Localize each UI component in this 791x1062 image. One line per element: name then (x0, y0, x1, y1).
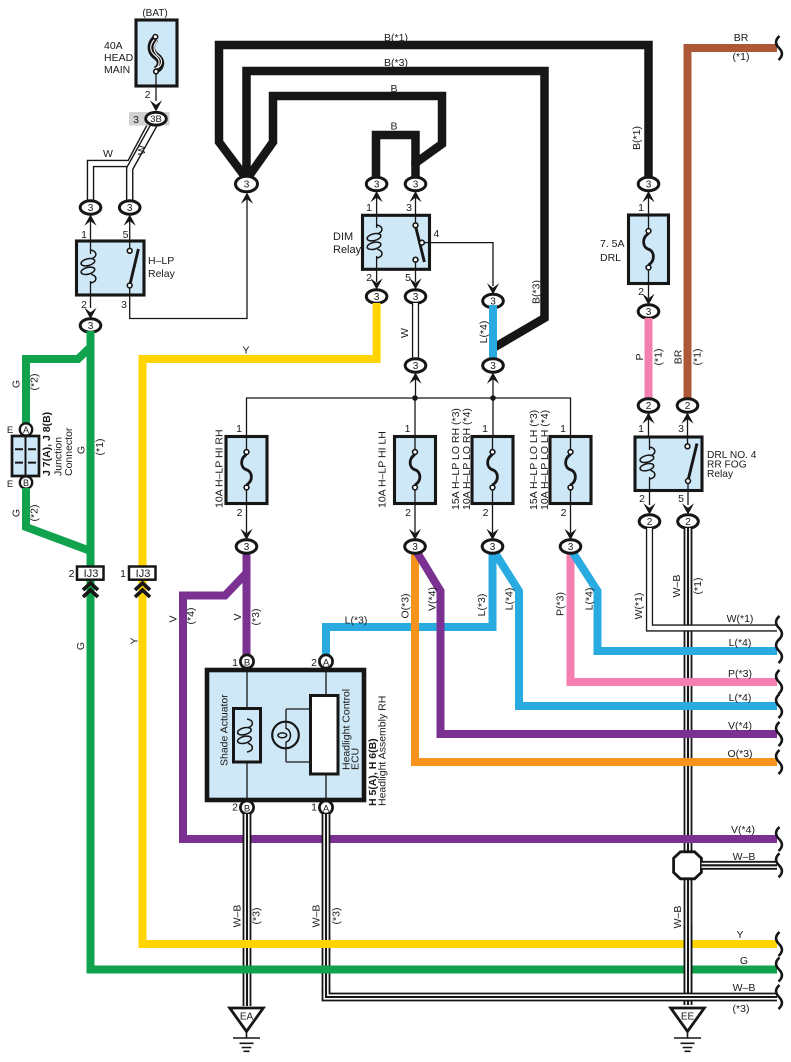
pin 5 label DIM (405, 272, 411, 284)
label (*1) beside BR (692, 349, 704, 366)
wire G(*2) lower branch (26, 488, 91, 551)
break squiggle Y (776, 932, 782, 956)
svg-text:(*3): (*3) (251, 908, 263, 925)
pin 2 label fuse H-LP LO LH (561, 507, 567, 519)
wire L(*4) below DIM pin 4 (489, 305, 497, 359)
pin 2 label H-LP relay (81, 299, 87, 311)
label L(*4) right lower (729, 692, 752, 704)
label P vertical (634, 353, 646, 360)
svg-text:3: 3 (413, 180, 419, 191)
label V(*4) bottom right (731, 824, 755, 836)
svg-text:1: 1 (638, 423, 644, 435)
svg-text:A: A (323, 803, 330, 814)
svg-text:W–B: W–B (311, 905, 323, 928)
svg-text:J 7(A), J 8(B): J 7(A), J 8(B) (41, 412, 53, 476)
label V(*4) right (728, 720, 752, 732)
label B (fourth wire) (390, 121, 397, 133)
svg-text:HEAD: HEAD (104, 52, 134, 64)
arrow below fuse H-LP HI LH (409, 504, 421, 541)
label B(*3) vertical (531, 280, 543, 304)
pin 2 label fuse H-LP HI RH (237, 507, 243, 519)
label L(*4) vertical b (584, 588, 596, 611)
svg-text:B(*3): B(*3) (384, 57, 408, 69)
label (*1) under BR (733, 51, 750, 63)
label Y top (242, 345, 249, 357)
svg-text:2: 2 (405, 507, 411, 519)
fuse 40A HEAD MAIN box (136, 20, 177, 86)
label DRL NO.4 RR FOG Relay (707, 450, 757, 480)
pin 2 label fuse H-LP LO RH (483, 507, 489, 519)
wire W-B vertical patch (684, 925, 693, 1005)
svg-text:1: 1 (638, 202, 644, 214)
svg-text:P: P (634, 353, 646, 360)
label fuse H-LP LO RH (450, 408, 473, 510)
svg-text:7. 5A: 7. 5A (600, 238, 625, 250)
svg-text:L(*4): L(*4) (729, 692, 752, 704)
node 3 below L(*4) wire (483, 359, 504, 398)
label G bottom right (740, 955, 748, 967)
wire B(*1) (219, 45, 649, 179)
arrow below fuse H-LP LO LH (564, 504, 576, 541)
label (*3) beside V (250, 609, 262, 626)
svg-text:E: E (7, 425, 13, 436)
svg-text:V(*4): V(*4) (427, 587, 439, 611)
shade actuator coil box (234, 668, 261, 800)
svg-text:Shade Actuator: Shade Actuator (219, 694, 231, 766)
svg-text:1: 1 (405, 423, 411, 435)
svg-text:3: 3 (646, 180, 652, 191)
svg-text:L(*4): L(*4) (504, 588, 516, 611)
label O(*3) right (727, 748, 752, 760)
label fuse H-LP LO LH (528, 410, 551, 510)
svg-text:40A: 40A (104, 40, 123, 52)
break squiggle W(*1) (776, 616, 782, 640)
svg-text:1: 1 (311, 802, 317, 814)
node 3 below fuse H-LP LO RH (482, 540, 503, 553)
label G main (76, 446, 88, 454)
pin 2 label DRL relay (639, 493, 645, 505)
label W-B octagon right (733, 851, 756, 863)
node 3 connector above H-LP pin 1 (80, 201, 101, 240)
svg-text:L(*3): L(*3) (345, 615, 368, 627)
ground EA (230, 1008, 264, 1051)
svg-text:(*1): (*1) (692, 349, 704, 366)
svg-text:5: 5 (123, 229, 129, 241)
svg-text:W–B: W–B (733, 851, 756, 863)
label W(*1) vertical (633, 593, 645, 620)
wire B(*3) (247, 71, 545, 347)
switch of DIM relay (413, 215, 429, 269)
label V(*4) vertical right (427, 587, 439, 611)
svg-text:2: 2 (638, 286, 644, 298)
svg-text:4: 4 (434, 228, 440, 240)
pin B of junction connector (7, 476, 32, 490)
wire W-B(*3) from pin B to EA ground (243, 814, 252, 1006)
wire L(*4) from LO RH fuse (493, 549, 778, 706)
svg-text:10A H–LP LO RH (*4): 10A H–LP LO RH (*4) (461, 408, 473, 510)
break squiggle V(*4) (776, 722, 782, 746)
node 3 connector above H-LP pin 5 (119, 201, 140, 240)
svg-text:B(*1): B(*1) (384, 32, 408, 44)
wire G(*2) upper branch (26, 346, 92, 425)
label G lower branch (11, 509, 23, 517)
svg-text:3: 3 (88, 321, 94, 332)
switch of H-LP relay (127, 241, 138, 295)
arrow below fuse H-LP HI RH (240, 504, 252, 541)
wire G bottom over crossing (230, 966, 345, 974)
svg-text:2: 2 (483, 507, 489, 519)
label Y bottom vertical (129, 637, 141, 644)
svg-text:IJ3: IJ3 (136, 568, 151, 580)
svg-text:(BAT): (BAT) (142, 8, 167, 19)
label L(*4) right upper (729, 637, 752, 649)
svg-text:(*1): (*1) (94, 439, 106, 456)
svg-text:3B: 3B (150, 114, 162, 125)
node 3 above DRL fuse (638, 177, 659, 214)
label W vertical (399, 328, 411, 338)
label L(*3) vertical (476, 594, 488, 617)
pin 3 label H-LP relay (121, 299, 127, 311)
svg-text:2: 2 (145, 89, 151, 101)
label 7.5A DRL (600, 238, 625, 264)
svg-text:G: G (740, 955, 748, 967)
svg-text:A: A (23, 425, 29, 435)
svg-text:3: 3 (133, 114, 139, 126)
svg-text:3: 3 (678, 423, 684, 435)
node 3 below DIM pin 5 (405, 269, 426, 303)
label P(*3) right (728, 668, 752, 680)
label H-LP Relay (148, 255, 176, 280)
svg-text:H–LP: H–LP (148, 255, 174, 267)
pin 1 B top (232, 655, 253, 669)
label P(*3) vertical (555, 592, 567, 616)
label (BAT) (142, 8, 167, 19)
pin 2 label DRL fuse (638, 286, 644, 298)
node 3 below W wire (405, 359, 426, 398)
label fuse H-LP HI RH (214, 429, 226, 508)
svg-text:2: 2 (561, 507, 567, 519)
svg-text:IJ3: IJ3 (84, 568, 99, 580)
svg-text:W–B: W–B (671, 575, 683, 598)
svg-text:1: 1 (120, 568, 126, 580)
svg-text:3: 3 (374, 180, 380, 191)
label L(*3) horizontal (345, 615, 368, 627)
connector 3B (129, 112, 170, 126)
break squiggle BR (776, 36, 782, 60)
svg-text:3: 3 (413, 361, 419, 372)
svg-text:G: G (75, 642, 87, 650)
svg-text:E: E (7, 479, 13, 490)
svg-text:3: 3 (244, 180, 250, 191)
wire V(*4) left branch (183, 573, 777, 839)
wire from H-LP pin 3 to node 3 (130, 198, 247, 319)
label G upper branch (11, 380, 23, 388)
wire W-B(*3) from pin A (322, 814, 331, 993)
label W (diagonal wire) (136, 145, 148, 155)
wire O(*3) (415, 547, 777, 762)
headlight assembly box (207, 670, 364, 800)
label BR vertical (673, 349, 685, 364)
svg-text:3: 3 (646, 307, 652, 318)
connector IJ3 green (69, 567, 104, 598)
svg-text:3: 3 (374, 292, 380, 303)
node 3 on DIM pin 4 chain (483, 294, 504, 307)
svg-text:DRL: DRL (600, 252, 621, 264)
svg-text:P(*3): P(*3) (728, 668, 752, 680)
svg-text:O(*3): O(*3) (727, 748, 752, 760)
label G bottom vertical (75, 642, 87, 650)
svg-text:(*1): (*1) (653, 349, 665, 366)
wire W to H-LP relay pin 5 (130, 124, 155, 204)
svg-text:1: 1 (232, 657, 238, 669)
svg-text:3: 3 (412, 542, 418, 553)
label (*2) lower (29, 505, 41, 522)
svg-text:W(*1): W(*1) (727, 613, 754, 625)
svg-text:3: 3 (490, 542, 496, 553)
node 3 above DIM pin 3 (405, 177, 426, 214)
coil of H-LP relay (80, 241, 96, 295)
svg-text:Y: Y (129, 637, 141, 644)
junction octagon (674, 852, 702, 879)
break squiggle W-B bottom (776, 985, 782, 1009)
bus wire from relays to fuses (247, 395, 571, 436)
break squiggle L(*4) lower (776, 694, 782, 718)
node 3 above DIM pin 1 (366, 177, 387, 214)
pin A of junction connector (7, 423, 32, 436)
label W-B left (232, 905, 263, 928)
svg-text:Y: Y (736, 929, 743, 941)
pin 1 label DRL relay (638, 423, 644, 435)
svg-text:3: 3 (127, 203, 133, 214)
svg-text:Relay: Relay (707, 469, 734, 480)
svg-text:W: W (136, 145, 148, 155)
pin 1 label H-LP relay (81, 229, 87, 241)
wire V(*4) from HI LH fuse (415, 549, 777, 734)
wire W-B(*3) bottom horizontal (326, 990, 777, 997)
break squiggle W-B octagon (776, 853, 782, 877)
svg-text:P(*3): P(*3) (555, 592, 567, 616)
node 3 below fuse H-LP HI LH (405, 540, 426, 553)
label Shade Actuator (219, 694, 231, 766)
coil of DIM relay (366, 215, 382, 269)
label H 5(A) H 6(B) Headlight Assembly RH (367, 696, 389, 806)
svg-text:3: 3 (490, 361, 496, 372)
relay DRL NO.4 RR FOG box (635, 437, 702, 491)
wire L(*4) from LO LH fuse (571, 549, 778, 651)
node 2 above DRL relay pin 1 (638, 399, 659, 436)
svg-text:1: 1 (81, 229, 87, 241)
relay H-LP box (77, 241, 145, 295)
relay DIM box (363, 215, 430, 269)
svg-text:(*3): (*3) (331, 908, 343, 925)
svg-text:2: 2 (646, 401, 652, 412)
svg-text:2: 2 (685, 517, 691, 528)
pin 5 label DRL relay (678, 493, 684, 505)
svg-text:EE: EE (681, 1012, 695, 1023)
svg-text:2: 2 (366, 272, 372, 284)
switch of DRL relay (685, 437, 697, 491)
wire P(*1) (645, 318, 653, 399)
svg-text:G: G (11, 509, 23, 517)
label W-B vertical bottom (672, 906, 684, 929)
label J7(A) J8(B) Junction Connector (41, 412, 75, 476)
svg-text:3: 3 (121, 299, 127, 311)
svg-text:10A H–LP HI RH: 10A H–LP HI RH (214, 429, 226, 508)
node 2 below DRL relay pin 2 (639, 491, 660, 529)
node 3 connector below H-LP pin 2 (80, 295, 101, 332)
svg-text:1: 1 (482, 423, 488, 435)
pin 3 label DRL relay (678, 423, 684, 435)
arrow into node 3 junction of B wires (241, 193, 253, 204)
svg-text:EA: EA (240, 1012, 254, 1023)
svg-text:10A H–LP HI LH: 10A H–LP HI LH (377, 431, 389, 508)
svg-text:Relay: Relay (333, 244, 362, 256)
label V vertical (232, 613, 244, 620)
pin 5 label H-LP relay (123, 229, 129, 241)
pin 1 label fuse H-LP LO RH (482, 423, 488, 435)
svg-text:B: B (23, 478, 29, 488)
svg-text:V: V (232, 613, 244, 620)
svg-text:2: 2 (69, 568, 75, 580)
node 3 below DIM pin 2 (366, 269, 387, 303)
break squiggle P(*3) (776, 670, 782, 694)
label L(*4) vertical top (478, 321, 490, 344)
label V vertical left (168, 615, 180, 622)
svg-text:W: W (103, 148, 113, 160)
wire V(*3) to headlight (243, 547, 251, 655)
svg-text:(*2): (*2) (29, 374, 41, 391)
node 2 below DRL relay pin 5 (678, 491, 699, 529)
label DIM Relay (333, 231, 362, 256)
headlight control ECU box (311, 668, 339, 800)
pin 2 B bottom (232, 801, 253, 814)
label W(*1) right (727, 613, 754, 625)
svg-text:Connector: Connector (63, 427, 75, 476)
label L(*4) vertical a (504, 588, 516, 611)
svg-text:2: 2 (639, 493, 645, 505)
svg-text:BR: BR (734, 32, 749, 44)
wire W-B from octagon to right (702, 861, 778, 870)
node 2 above DRL relay pin 3 (677, 399, 698, 436)
wire Y from DIM relay (143, 303, 778, 944)
svg-text:V(*4): V(*4) (728, 720, 752, 732)
wire W(*1) from DRL relay pin 2 (650, 528, 778, 628)
label W (horizontal wire) (103, 148, 113, 160)
svg-text:3: 3 (244, 542, 250, 553)
label Y bottom right (736, 929, 743, 941)
fuse H-LP LO RH box (472, 437, 513, 504)
svg-text:(*1): (*1) (692, 578, 704, 595)
node 3 below fuse H-LP HI RH (236, 540, 257, 553)
label B(*3) top (384, 57, 408, 69)
label (*2) upper (29, 374, 41, 391)
svg-text:B(*1): B(*1) (631, 126, 643, 150)
label BR (734, 32, 749, 44)
svg-text:DIM: DIM (333, 231, 353, 243)
svg-text:2: 2 (685, 401, 691, 412)
pin 1 label fuse H-LP HI RH (236, 423, 242, 435)
svg-text:W–B: W–B (672, 906, 684, 929)
svg-text:W–B: W–B (733, 982, 756, 994)
pin 1 label fuse H-LP HI LH (405, 423, 411, 435)
svg-text:L(*3): L(*3) (476, 594, 488, 617)
pin 3 label DIM (406, 202, 412, 214)
svg-text:5: 5 (678, 493, 684, 505)
svg-text:(*4): (*4) (185, 608, 197, 625)
svg-text:W: W (399, 328, 411, 338)
svg-text:V: V (168, 615, 180, 622)
label (*3) bottom right (733, 1003, 750, 1015)
svg-text:Headlight Assembly RH: Headlight Assembly RH (377, 696, 389, 806)
svg-text:3: 3 (413, 292, 419, 303)
label Headlight Control ECU (341, 689, 362, 770)
wire DIM pin 4 to connector (430, 243, 500, 295)
label (*4) beside V left (185, 608, 197, 625)
svg-text:B: B (244, 657, 250, 668)
label W-B middle (311, 905, 343, 928)
label 40A HEAD MAIN (104, 40, 134, 76)
svg-text:A: A (323, 657, 330, 668)
pin 1 label fuse H-LP LO LH (560, 423, 566, 435)
svg-text:(*2): (*2) (29, 505, 41, 522)
svg-text:2: 2 (311, 657, 317, 669)
wire W-B from DRL relay pin 5 (684, 528, 693, 1005)
svg-text:(*1): (*1) (733, 51, 750, 63)
wire W below DIM pin 5 (412, 303, 419, 359)
fuse H-LP HI LH box (395, 437, 436, 504)
svg-text:B: B (390, 121, 397, 133)
pin 1 A bottom (311, 801, 332, 814)
label B(*1) vertical (631, 126, 643, 150)
node 3 junction of B wires (236, 176, 258, 192)
wire fuse 40A to connector 3B (150, 74, 162, 112)
label B (third wire) (390, 83, 397, 95)
break squiggle G (776, 958, 782, 982)
node 3 below DRL fuse (638, 284, 659, 319)
fuse 7.5A DRL box (629, 215, 669, 284)
fuse H-LP HI RH box (226, 437, 267, 504)
pin 2 label DIM (366, 272, 372, 284)
label W-B bottom right (733, 982, 756, 994)
svg-text:B: B (390, 83, 397, 95)
wire B (DIM pin 1) (376, 135, 416, 180)
svg-text:L(*4): L(*4) (478, 321, 490, 344)
svg-text:2: 2 (237, 507, 243, 519)
connector IJ3 yellow (120, 567, 155, 598)
label fuse H-LP HI LH (377, 431, 389, 508)
label (*1) (94, 439, 106, 456)
svg-text:1: 1 (366, 202, 372, 214)
svg-text:10A H–LP LO LH (*4): 10A H–LP LO LH (*4) (539, 410, 551, 510)
label O(*3) vertical (400, 593, 412, 618)
svg-text:MAIN: MAIN (104, 64, 130, 76)
svg-text:V(*4): V(*4) (731, 824, 755, 836)
svg-text:(*3): (*3) (733, 1003, 750, 1015)
svg-text:1: 1 (236, 423, 242, 435)
svg-text:2: 2 (232, 802, 238, 814)
wire G(*1) main (91, 331, 778, 970)
wire Y bottom over crossing (230, 940, 345, 948)
break squiggle L(*4) upper (776, 639, 782, 663)
wire L(*3) to headlight (326, 547, 493, 655)
svg-text:ECU: ECU (350, 748, 362, 770)
svg-text:W–B: W–B (232, 905, 244, 928)
svg-text:5: 5 (405, 272, 411, 284)
svg-text:L(*4): L(*4) (584, 588, 596, 611)
arrow below fuse H-LP LO RH (486, 504, 498, 541)
label B(*1) (384, 32, 408, 44)
svg-text:BR: BR (673, 349, 685, 364)
